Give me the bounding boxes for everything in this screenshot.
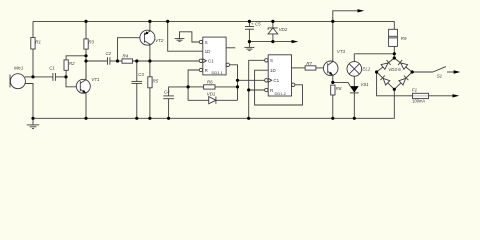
ground symbol bottom left [27,118,39,128]
svg-text:R4: R4 [123,54,129,59]
ground symbol mid [244,42,254,51]
diode VD5 [380,76,389,85]
capacitor C5 [245,21,254,41]
svg-text:C1: C1 [208,59,214,64]
svg-text:C5: C5 [255,21,261,26]
diode bridge frame VD3-6 [377,58,413,89]
wire DD1.2 feedback loop [255,70,303,105]
svg-text:EL1: EL1 [362,67,370,72]
svg-text:1D: 1D [205,49,212,54]
transistor VT3 [323,21,338,82]
svg-text:R6: R6 [207,79,213,84]
svg-text:VS1: VS1 [360,82,369,87]
wire VT1 collector node [86,60,108,62]
diode VD4 [398,60,408,69]
resistor R1 [31,21,35,77]
zener diode VD2 [268,21,278,41]
wire lamp branch [354,53,394,55]
resistor R5 [148,61,152,118]
wire bottom ground rail [33,89,394,118]
resistor R6 [188,85,237,89]
svg-text:S1: S1 [437,74,443,79]
resistor R9 [389,21,398,58]
capacitor C1 [33,73,66,81]
svg-text:C1: C1 [49,66,55,71]
ground symbol at DD1.1 S [175,32,200,42]
thyristor VS1 [350,86,359,118]
switch S1 with arrow [412,67,460,74]
svg-text:DD1.1: DD1.1 [212,70,224,75]
wire arrow supply top [333,9,364,21]
svg-text:R5: R5 [153,79,159,84]
capacitor C3 [132,61,143,118]
svg-text:S: S [270,58,273,63]
IC DD1.2 flip-flop [265,55,292,96]
diode VD6 [399,76,409,85]
svg-text:R8: R8 [336,86,342,91]
svg-text:VT3: VT3 [337,49,346,54]
svg-text:C4: C4 [164,90,170,95]
diode VD3 [381,60,391,69]
svg-text:VT1: VT1 [91,77,100,82]
transistor VT2 [118,21,155,61]
diode VD1 [209,97,238,104]
svg-text:C1: C1 [273,78,279,83]
wire supply output with arrow [249,40,298,43]
svg-text:VD2: VD2 [279,27,288,32]
svg-text:C2: C2 [106,51,112,56]
wire clock DD1.2 [238,79,265,81]
wire Q stub DD1.1 [226,47,235,49]
transistor VT1 [76,61,90,118]
microphone Mic1 [10,74,33,119]
resistor R3 [84,21,88,79]
capacitor C4 [163,87,188,118]
IC DD1.1 flip-flop [199,37,226,75]
svg-text:Mic1: Mic1 [14,65,24,70]
svg-text:VD1: VD1 [207,91,216,96]
resistor R2 [64,56,86,77]
svg-text:DD1.2: DD1.2 [275,91,287,96]
wire VS1 gate [333,82,350,86]
capacitor C2 [108,57,123,64]
wire VT1 base [66,77,80,87]
svg-text:C3: C3 [138,72,144,77]
svg-text:100mA: 100mA [412,98,425,103]
wire inverted output DD1.1 [226,63,237,100]
svg-text:1D: 1D [270,68,277,73]
lamp EL1 [347,54,362,86]
wire DD1.2 S R ground [249,60,265,118]
resistor R4 [122,59,199,63]
fuse F1 with arrow [377,72,460,99]
wire 1D tie-high DD1.1 [168,21,203,51]
svg-text:VT2: VT2 [155,38,164,43]
svg-text:R1: R1 [35,39,41,44]
svg-text:R9: R9 [401,36,407,41]
resistor R8 [331,85,335,118]
svg-text:R7: R7 [306,61,312,66]
svg-text:VD3-6: VD3-6 [388,67,401,72]
svg-text:F1: F1 [412,87,418,92]
wire top supply rail [33,20,394,22]
resistor R7 [292,66,328,70]
svg-text:R2: R2 [69,61,75,66]
wire DD1.1 R node [188,70,209,100]
svg-text:+: + [251,22,254,27]
svg-text:S: S [205,40,208,45]
svg-text:R3: R3 [88,39,94,44]
